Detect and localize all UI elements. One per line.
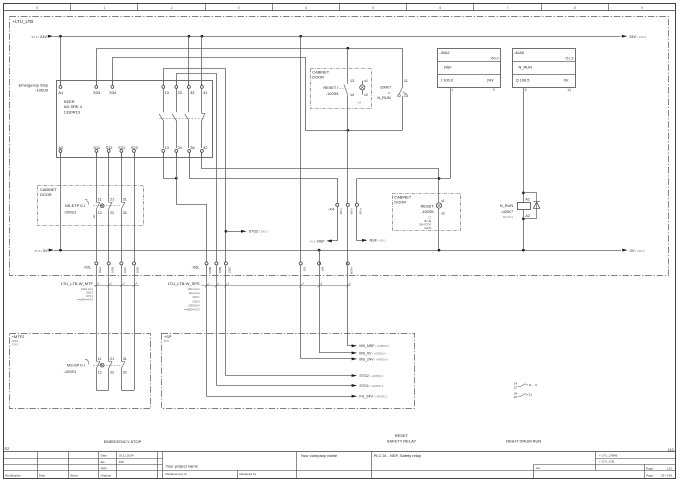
svg-text:==HBX==LTU: ==HBX==LTU (77, 297, 93, 301)
svg-text:==KBD==LTU: ==KBD==LTU (184, 308, 200, 312)
svg-text:/51.5: /51.5 (565, 57, 573, 61)
svg-text:23: 23 (178, 90, 182, 95)
svg-text:-X6L: -X6L (191, 264, 200, 269)
svg-text:11: 11 (404, 79, 408, 83)
svg-text:NSF / 410.1: NSF / 410.1 (370, 239, 387, 243)
svg-text:-100K7: -100K7 (379, 85, 392, 90)
svg-text:RESET: RESET (421, 204, 435, 209)
svg-text:NS-ETP 0-I: NS-ETP 0-I (65, 203, 85, 208)
svg-text:12: 12 (514, 385, 518, 389)
svg-text:MS-SP 0-I: MS-SP 0-I (67, 362, 85, 367)
svg-text:EMERGENCY-STOP: EMERGENCY-STOP (104, 439, 142, 444)
svg-text:x2: x2 (441, 212, 445, 216)
svg-text:SAFETY RELAY: SAFETY RELAY (387, 439, 417, 444)
svg-text:N_RUN: N_RUN (500, 203, 514, 208)
svg-text:-100U0: -100U0 (35, 88, 49, 93)
svg-text:16G1 mm²: 16G1 mm² (188, 287, 200, 291)
svg-text:Q 106.5: Q 106.5 (516, 78, 530, 83)
svg-text:0V: 0V (564, 78, 569, 83)
svg-text:-X2L: -X2L (83, 264, 92, 269)
svg-text:41.0 / NSF: 41.0 / NSF (310, 239, 326, 243)
svg-text:IN244: IN244 (424, 226, 431, 230)
svg-text:S22: S22 (131, 145, 138, 150)
svg-text:/176.1: /176.1 (12, 343, 20, 346)
svg-text:S34: S34 (109, 90, 117, 95)
svg-text:14: 14 (350, 93, 354, 97)
svg-text:/176.1: /176.1 (86, 294, 94, 298)
svg-text:33: 33 (190, 90, 194, 95)
svg-text:29 / 138: 29 / 138 (661, 474, 672, 478)
svg-text:x1: x1 (364, 79, 368, 83)
svg-text:A1: A1 (58, 90, 63, 95)
svg-text:41: 41 (203, 90, 207, 95)
svg-text:21: 21 (529, 393, 533, 397)
svg-text:A2: A2 (58, 145, 63, 150)
svg-text:32: 32 (123, 211, 127, 215)
svg-text:22: 22 (110, 371, 114, 375)
svg-text:0V / 100.0: 0V / 100.0 (630, 248, 645, 253)
svg-text:3: 3 (238, 6, 240, 10)
svg-text:+LTU_LTB: +LTU_LTB (13, 19, 34, 24)
svg-text:STO2 / 300.0: STO2 / 300.0 (249, 230, 268, 234)
svg-text:22: 22 (514, 395, 518, 399)
svg-text:101B: 101B (110, 267, 114, 273)
svg-text:NSF+: NSF+ (349, 266, 353, 273)
svg-text:6: 6 (525, 88, 527, 92)
svg-text:11: 11 (98, 357, 102, 361)
svg-text:45N+: 45N+ (339, 208, 343, 215)
svg-text:14: 14 (404, 94, 408, 98)
svg-text:S21: S21 (118, 145, 125, 150)
svg-text:FU_24V / +KR500.2: FU_24V / +KR500.2 (359, 395, 387, 399)
svg-text:99.8 / 24V: 99.8 / 24V (32, 34, 48, 39)
svg-text:DC 24 V: DC 24 V (503, 215, 513, 219)
svg-text:100W: 100W (208, 266, 212, 273)
svg-text:S33: S33 (93, 90, 100, 95)
svg-text:+ LTU_LTB66: + LTU_LTB66 (599, 453, 618, 457)
svg-text:1: 1 (103, 6, 105, 10)
svg-text:/100.1: /100.1 (193, 295, 201, 299)
svg-text:PLC DI - NSF, Safety relay: PLC DI - NSF, Safety relay (374, 453, 421, 458)
svg-text:BLUE: BLUE (424, 219, 431, 223)
svg-text:Modification: Modification (5, 473, 21, 477)
svg-text:24V: 24V (487, 78, 494, 83)
svg-text:-100K7: -100K7 (501, 209, 514, 214)
svg-text:1: 1 (451, 88, 453, 92)
svg-text:Appr: Appr (101, 466, 107, 470)
svg-text:DOOR: DOOR (312, 74, 324, 79)
svg-text:32: 32 (123, 371, 127, 375)
svg-text:A1: A1 (525, 198, 530, 202)
svg-text:/100.4: /100.4 (193, 299, 201, 303)
svg-text:14: 14 (567, 88, 571, 92)
svg-text:/50.0: /50.0 (491, 57, 499, 61)
svg-text:6: 6 (439, 6, 441, 10)
svg-text:+SP/100.4: +SP/100.4 (188, 303, 201, 307)
svg-text:9: 9 (641, 6, 643, 10)
svg-text:-100S5: -100S5 (421, 209, 434, 214)
svg-text:RESET I: RESET I (323, 85, 338, 90)
svg-text:x2: x2 (364, 93, 368, 97)
svg-text:5: 5 (372, 6, 374, 10)
svg-text:x1: x1 (441, 199, 445, 203)
svg-text:+ LTU_LTB: + LTU_LTB (599, 460, 614, 464)
svg-text:A2: A2 (525, 214, 530, 218)
svg-text:S2: S2 (5, 446, 10, 451)
svg-text:+MTF2: +MTF2 (12, 334, 26, 339)
svg-text:31: 31 (123, 198, 127, 202)
svg-text:-100S1: -100S1 (64, 209, 77, 214)
svg-text:DOOR: DOOR (40, 192, 52, 197)
svg-text:1330R13: 1330R13 (64, 110, 81, 115)
svg-text:LTU_LTB-W_MTF: LTU_LTB-W_MTF (61, 281, 94, 286)
svg-text:STO1 / +KR500.2: STO1 / +KR500.2 (359, 384, 383, 388)
svg-text:101C: 101C (123, 267, 127, 273)
svg-text:101: 101 (93, 214, 96, 219)
svg-text:NSF: NSF (444, 65, 452, 70)
svg-text:13: 13 (350, 79, 354, 83)
svg-text:-100S5: -100S5 (326, 91, 339, 96)
svg-text:PLS: PLS (164, 340, 169, 343)
svg-text:DW: DW (119, 460, 124, 464)
svg-text:21: 21 (110, 198, 114, 202)
svg-text:LTU_LTB-W_SPS: LTU_LTB-W_SPS (168, 281, 200, 286)
svg-text:21: 21 (110, 357, 114, 361)
svg-text:MS_NSF / +KR500.0: MS_NSF / +KR500.0 (359, 344, 389, 348)
svg-text:NIGHT DRUM RUN: NIGHT DRUM RUN (506, 439, 541, 444)
svg-text:02.11.2024: 02.11.2024 (119, 454, 134, 458)
svg-text:/100.2: /100.2 (86, 290, 94, 294)
svg-text:12: 12 (98, 211, 102, 215)
svg-text:101A: 101A (98, 267, 102, 273)
svg-text:-40A0: -40A0 (514, 50, 525, 55)
svg-text:12: 12 (397, 94, 401, 98)
svg-text:9: 9 (493, 88, 495, 92)
svg-text:45N+: 45N+ (359, 208, 363, 215)
svg-text:Original: Original (101, 473, 112, 477)
svg-text:101D: 101D (136, 267, 140, 273)
svg-text:EM-STOP: EM-STOP (419, 223, 431, 227)
svg-text:13: 13 (165, 90, 169, 95)
svg-text:-L4: -L4 (357, 100, 361, 104)
svg-text:Page: Page (646, 474, 653, 478)
svg-text:+SP: +SP (164, 334, 172, 339)
svg-text:4: 4 (305, 6, 307, 10)
svg-text:100C: 100C (228, 267, 232, 273)
svg-text:Your project name: Your project name (166, 464, 199, 469)
svg-text:22: 22 (110, 211, 114, 215)
svg-text:MS_24V / +KR500.4: MS_24V / +KR500.4 (359, 357, 388, 361)
svg-text:8: 8 (574, 6, 576, 10)
svg-text:100N: 100N (218, 267, 222, 273)
svg-text:7: 7 (507, 6, 509, 10)
svg-text:LT: LT (428, 215, 431, 219)
svg-text:-100S1: -100S1 (64, 369, 77, 374)
svg-text:AD SRE 4: AD SRE 4 (64, 104, 83, 109)
svg-text:103: 103 (302, 266, 306, 271)
svg-text:Replacement of: Replacement of (166, 472, 187, 476)
svg-text:N_RUN: N_RUN (377, 95, 391, 100)
svg-text:STO2 / +KR500.2: STO2 / +KR500.2 (359, 374, 383, 378)
svg-text:Ed.: Ed. (101, 460, 106, 464)
svg-text:N_RUN: N_RUN (519, 65, 533, 70)
svg-text:11: 11 (529, 383, 532, 387)
svg-text:I 100.0: I 100.0 (441, 78, 454, 83)
svg-text:11: 11 (98, 198, 102, 202)
svg-text:12: 12 (98, 371, 102, 375)
svg-text:DOOR: DOOR (394, 199, 406, 204)
svg-text:104: 104 (321, 266, 325, 271)
svg-text:Replaced by: Replaced by (240, 472, 257, 476)
svg-text:Screened: Screened (189, 291, 200, 295)
svg-text:Date: Date (101, 454, 108, 458)
svg-text:-30A2: -30A2 (439, 50, 449, 55)
svg-text:42: 42 (203, 145, 207, 150)
svg-text:MS_0V / +KR500.4: MS_0V / +KR500.4 (359, 351, 386, 355)
svg-text:0: 0 (36, 6, 38, 10)
svg-text:99.8 / 0V: 99.8 / 0V (35, 248, 49, 253)
svg-text:Page: Page (646, 466, 653, 470)
svg-text:10G1 mm²: 10G1 mm² (81, 287, 93, 291)
svg-text:24V / 100.0: 24V / 100.0 (629, 34, 646, 39)
svg-text:Date: Date (39, 473, 46, 477)
svg-text:S11: S11 (93, 145, 100, 150)
svg-text:31: 31 (123, 357, 127, 361)
svg-text:-X4: -X4 (328, 206, 335, 211)
svg-text:110: 110 (667, 466, 672, 470)
svg-text:S12: S12 (106, 145, 113, 150)
svg-text:RESET: RESET (395, 433, 409, 438)
svg-text:45N+: 45N+ (349, 208, 353, 215)
svg-text:Your company name: Your company name (301, 453, 338, 458)
svg-text:Name: Name (70, 473, 78, 477)
svg-text:2: 2 (171, 6, 173, 10)
